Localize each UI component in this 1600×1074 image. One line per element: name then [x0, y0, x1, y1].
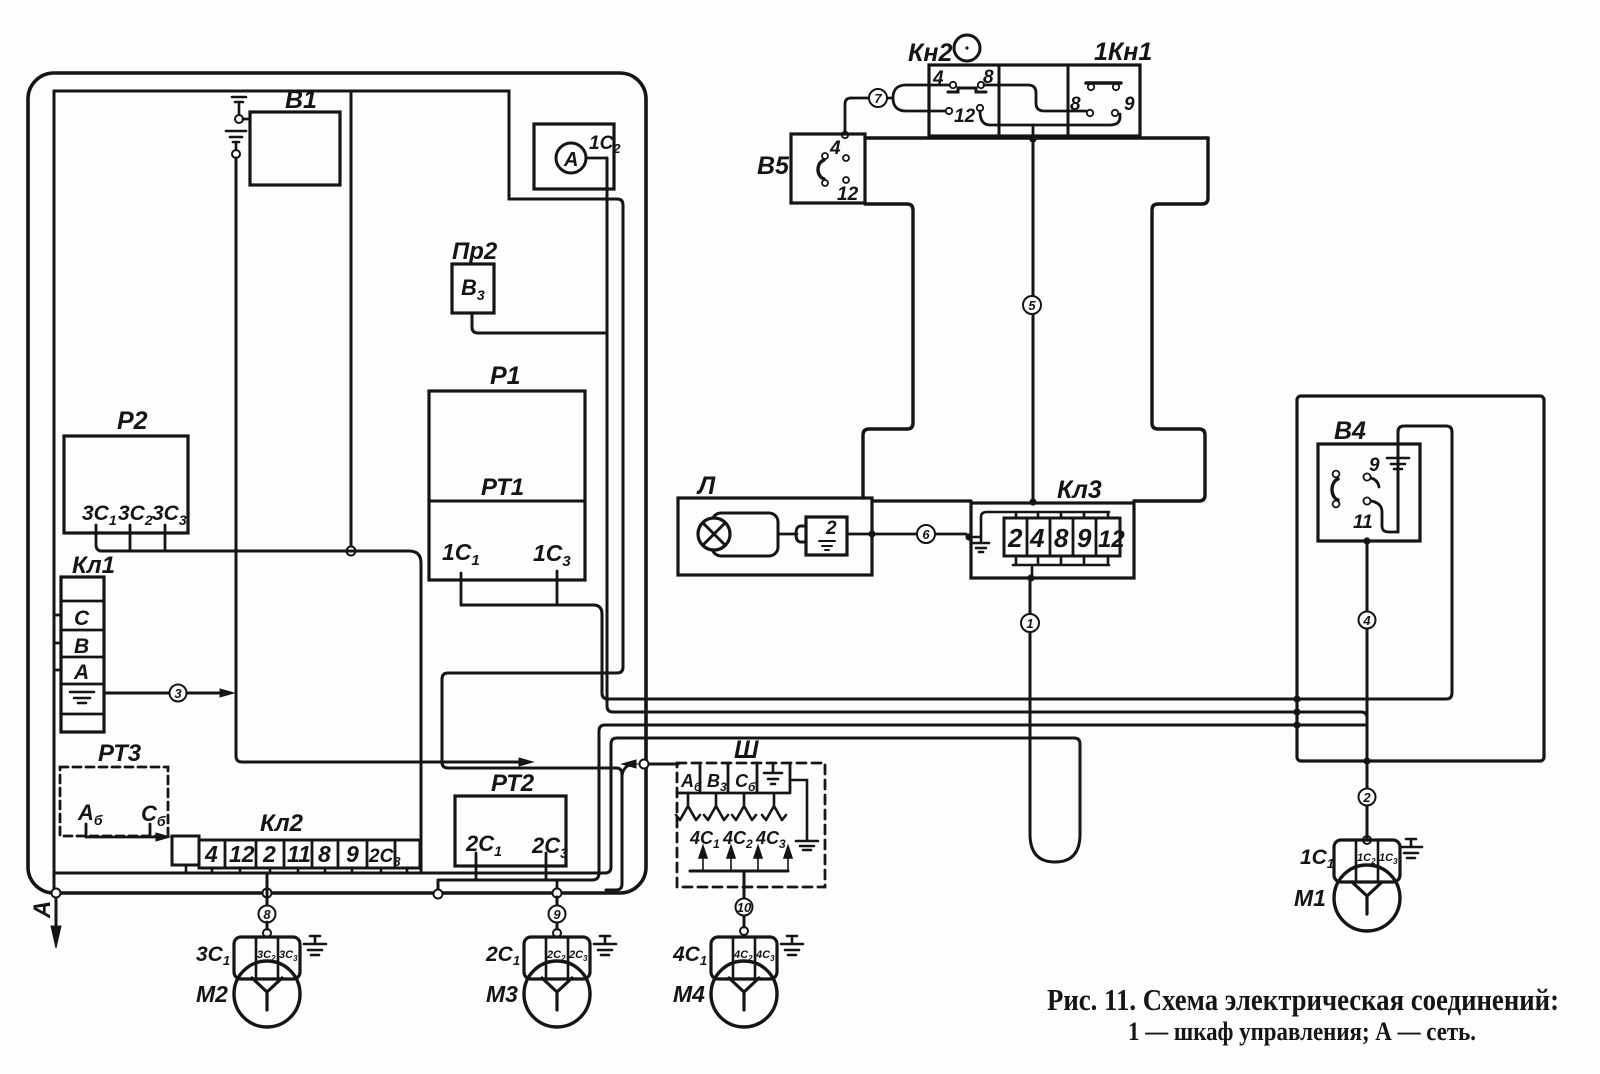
svg-text:А: А: [29, 901, 56, 919]
svg-text:4: 4: [1029, 523, 1045, 553]
node Кл3 top: [1029, 498, 1036, 505]
svg-text:8: 8: [1054, 523, 1069, 553]
svg-text:11: 11: [287, 841, 311, 867]
svg-text:5: 5: [1028, 298, 1036, 313]
node 8: [259, 906, 276, 923]
node enclosure bottom: [1363, 757, 1370, 764]
arrow left at junction: [622, 760, 640, 768]
plug symbol: [796, 526, 806, 542]
svg-text:8: 8: [263, 907, 271, 922]
arrows up Ш: [699, 846, 792, 871]
wire Р1 1С to bus1 to В4: [461, 426, 1452, 699]
svg-text:10: 10: [737, 900, 752, 915]
node 7: [869, 89, 887, 107]
svg-text:М4: М4: [673, 981, 705, 1007]
svg-text:Рис. 11. Схема электрическая с: Рис. 11. Схема электрическая соединений:: [1047, 982, 1559, 1017]
motor М2 circle: [234, 961, 300, 1027]
motor М4 circle: [711, 961, 777, 1027]
terminal open circle: [347, 547, 356, 556]
outline left arm: [863, 204, 913, 498]
node Л output: [868, 530, 875, 537]
svg-text:РТ3: РТ3: [98, 740, 142, 767]
wire Р2 ticks: [96, 525, 165, 551]
wire fork from node 7: [893, 85, 949, 111]
wire Ш bottom bus: [690, 871, 788, 887]
svg-text:РТ2: РТ2: [491, 770, 535, 797]
svg-text:М1: М1: [1294, 885, 1326, 911]
ground at В1 lower: [226, 131, 246, 150]
svg-text:М2: М2: [196, 981, 228, 1007]
svg-text:3: 3: [174, 686, 182, 701]
node junction top: [1029, 135, 1036, 142]
terminal block Кл3: [971, 503, 1134, 578]
motor М3 circle: [524, 961, 590, 1027]
svg-text:2: 2: [1362, 790, 1371, 805]
svg-text:8: 8: [318, 841, 331, 867]
terminal М3: [553, 929, 561, 937]
Кл3 comb top: [981, 512, 1109, 537]
wire inner bottom bus to U-loop and Кл3: [54, 580, 1080, 873]
svg-text:2: 2: [1007, 523, 1023, 553]
svg-text:В: В: [74, 635, 89, 658]
wire РТ2 ticks: [476, 853, 546, 880]
buttons box Кн2/Кн1: [929, 65, 1140, 136]
ground М4: [781, 936, 803, 955]
relay РТ1 divider: [429, 500, 585, 503]
ground in Кл3: [969, 537, 989, 552]
connector Ш dashed box: [677, 763, 825, 887]
svg-text:В5: В5: [757, 152, 790, 180]
node mains junction mid: [434, 890, 443, 899]
wire 1С1 tick: [460, 573, 463, 605]
wire junction to Ш: [648, 763, 678, 766]
wire Кн2 to Кн1 jumper: [984, 85, 1086, 111]
arrow right to В1 wire: [220, 689, 234, 697]
component 2 box: [806, 517, 847, 555]
svg-text:В4: В4: [1334, 417, 1366, 445]
svg-text:4: 4: [204, 841, 218, 867]
terminal М1: [1363, 836, 1371, 844]
wire vertical from top border: [350, 91, 353, 546]
wire Кл1 stubs to border: [54, 615, 61, 670]
node 3: [170, 685, 187, 702]
wire lamp to plug: [779, 533, 797, 536]
node В4 bottom: [1363, 537, 1370, 544]
Кл3 comb bottom: [1013, 556, 1109, 578]
outline right arm: [1134, 138, 1208, 501]
svg-text:Пр2: Пр2: [452, 238, 498, 265]
terminal В1 upper: [235, 115, 243, 123]
svg-text:Л: Л: [696, 472, 716, 500]
ammeter box: [534, 124, 614, 189]
contact Кн1: [1086, 81, 1121, 84]
wire to Л edge: [847, 533, 868, 536]
В5 lever contact: [818, 160, 824, 179]
node 9: [549, 906, 566, 923]
svg-text:4: 4: [829, 138, 841, 159]
motor М1 connector: [1334, 840, 1400, 882]
node 2: [1359, 789, 1376, 806]
wire РТ3 to Кл2 with arrow: [86, 836, 156, 839]
svg-text:12: 12: [229, 841, 255, 867]
wire Пр2 to channel: [472, 313, 607, 333]
svg-text:Ш: Ш: [734, 736, 759, 764]
wire Кл2 comb: [186, 865, 407, 873]
wire РТ2 bottom to bus3: [438, 725, 1367, 890]
node Кл3 left: [965, 533, 972, 540]
svg-text:А: А: [563, 149, 578, 171]
arrow right on В1 wire: [519, 758, 533, 766]
node 6: [917, 525, 935, 543]
wire inner border top loop: [54, 91, 623, 890]
svg-text:Кл2: Кл2: [260, 810, 304, 837]
node mains junction left: [52, 889, 61, 898]
wire Кл1 ground to arrow: [104, 692, 220, 695]
wire М2 drop: [266, 873, 269, 929]
wire lower jumper with drop: [980, 111, 1120, 125]
wire Р2 to Кл2 column: [100, 551, 421, 873]
socket forks Ш: [676, 795, 700, 820]
svg-text:9: 9: [1077, 523, 1092, 553]
lamp circle: [698, 518, 730, 550]
lamp unit Л box: [678, 498, 872, 575]
button symbol circle: [954, 35, 980, 61]
relay РТ3 dashed box: [60, 767, 168, 836]
node 1: [1021, 614, 1039, 632]
wire ammeter to bus2: [607, 158, 1367, 718]
ground at В1 top: [228, 91, 250, 114]
terminal В1 lower: [232, 150, 240, 158]
cabinet outer border (шкаф управления): [28, 73, 646, 893]
svg-text:М3: М3: [486, 981, 518, 1007]
switch В4 box: [1318, 444, 1420, 541]
svg-text:В1: В1: [285, 86, 317, 114]
svg-text:1 — шкаф управления; А — сеть.: 1 — шкаф управления; А — сеть.: [1128, 1017, 1476, 1046]
enclosure В4: [1297, 396, 1544, 761]
node mains junction М3: [553, 889, 562, 898]
ground on В4 wire: [1387, 458, 1409, 469]
relay Р1 box: [429, 391, 585, 580]
ground М2: [304, 936, 326, 955]
wire В4 internal: [1371, 501, 1398, 532]
wire Л top link: [872, 499, 971, 502]
node 4: [1359, 612, 1376, 629]
В4 lever contact: [1332, 479, 1338, 500]
wire А mains arrow down: [55, 898, 58, 928]
hook and ground right in Ш: [790, 780, 818, 850]
motor М2 connector: [234, 937, 300, 979]
ground in Ш top cell: [764, 763, 782, 784]
wire М4 drop: [743, 887, 746, 927]
fuse Пр2 box: [452, 264, 494, 313]
svg-text:9: 9: [346, 841, 359, 867]
motor М3 connector: [524, 937, 590, 979]
svg-text:12: 12: [837, 184, 859, 205]
relay РТ2 box: [455, 796, 566, 866]
svg-text:2: 2: [825, 518, 837, 539]
terminal М4: [740, 927, 748, 935]
lamp fixture: [712, 513, 778, 556]
wire to В5: [851, 97, 893, 100]
relay Р2 box: [64, 436, 188, 533]
terminal М2: [263, 929, 271, 937]
wire 1С3 tick: [556, 571, 559, 605]
svg-text:12: 12: [954, 106, 976, 127]
wire curl to arrow: [622, 764, 633, 778]
node 5: [1023, 296, 1041, 314]
svg-text:9: 9: [1124, 94, 1135, 115]
node Кл3 bottom: [1027, 574, 1034, 581]
switch В1 box: [250, 112, 340, 185]
wire М3 drop: [556, 897, 559, 929]
svg-text:А: А: [73, 661, 89, 684]
svg-text:1Кн1: 1Кн1: [1094, 38, 1152, 66]
wire central vertical: [1032, 139, 1035, 501]
node bus dots: [1293, 695, 1300, 702]
node mains junction М2: [263, 889, 272, 898]
wire ammeter lead: [586, 157, 607, 160]
motor М4 connector: [711, 937, 777, 979]
svg-text:6: 6: [922, 527, 930, 542]
wire В1 down and right with arrow: [236, 158, 519, 762]
outline big loop top: [865, 136, 1208, 139]
motor М1 circle: [1334, 865, 1400, 931]
svg-text:Р1: Р1: [490, 362, 521, 390]
wire РТ3 ticks: [86, 824, 150, 837]
svg-text:11: 11: [1353, 512, 1373, 533]
ground bars in Кл1 cell: [70, 692, 94, 703]
svg-text:9: 9: [553, 907, 561, 922]
wire inner border left: [53, 91, 56, 891]
node 10: [736, 899, 753, 916]
svg-text:Кл1: Кл1: [72, 552, 115, 579]
svg-text:12: 12: [1098, 526, 1125, 553]
svg-text:Кл3: Кл3: [1057, 476, 1102, 504]
svg-text:9: 9: [1369, 455, 1380, 476]
svg-text:2: 2: [262, 841, 276, 867]
connector Ш top cells: [677, 763, 790, 793]
svg-text:РТ1: РТ1: [481, 474, 524, 501]
wire М3 feed drop: [556, 880, 559, 889]
switch В5 box: [791, 134, 865, 203]
svg-text:Кн2: Кн2: [908, 39, 952, 67]
svg-text:С: С: [74, 607, 90, 630]
node junction at border: [640, 760, 649, 769]
svg-text:4: 4: [1362, 613, 1371, 628]
svg-text:1: 1: [1026, 616, 1033, 631]
svg-text:7: 7: [874, 91, 882, 106]
wire Л to Кл3: [876, 533, 966, 536]
ammeter А circle: [556, 143, 586, 173]
ground М1: [1400, 839, 1422, 858]
ground М3: [594, 936, 616, 955]
wire В4 bottom to М1: [1366, 541, 1369, 840]
svg-text:Р2: Р2: [117, 407, 148, 435]
